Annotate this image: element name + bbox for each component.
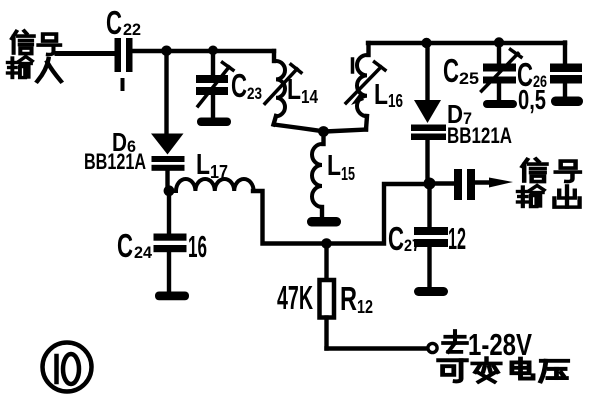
信号输入 input label	[8, 31, 61, 81]
bottom wire L14 to L16	[274, 125, 366, 132]
wire D7 to node F	[425, 140, 429, 184]
inductor L14	[272, 51, 276, 61]
open terminal circle	[428, 343, 437, 352]
capacitor C27	[427, 184, 431, 227]
svg-text:C: C	[117, 227, 133, 264]
varactor diode D7	[414, 100, 441, 123]
resistor R12	[324, 244, 328, 280]
svg-text:22: 22	[123, 20, 141, 39]
svg-text:L: L	[374, 79, 388, 111]
svg-text:0,5: 0,5	[518, 84, 546, 115]
ground bar under C23	[197, 118, 231, 127]
svg-text:23: 23	[247, 84, 262, 103]
ground bar under C25	[483, 100, 517, 108]
ground bar under C26	[551, 97, 583, 107]
ground bar under C24	[155, 292, 189, 301]
ground bar under L15	[307, 217, 341, 227]
top right rail	[368, 41, 565, 45]
svg-text:C: C	[231, 67, 247, 104]
svg-text:25: 25	[459, 69, 479, 88]
node D junction dot on bottom rail	[321, 238, 332, 249]
svg-text:L: L	[287, 74, 301, 106]
node B junction dot	[164, 185, 175, 196]
capacitor C22	[115, 38, 122, 72]
trimmer capacitor C23	[196, 75, 228, 83]
svg-text:24: 24	[134, 243, 153, 262]
wire C24 to ground	[167, 252, 171, 292]
node C junction dot	[318, 126, 329, 137]
svg-text:16: 16	[388, 91, 403, 111]
去1-28V supply label	[443, 327, 532, 362]
node F junction dot	[424, 178, 436, 190]
svg-text:BB121A: BB121A	[447, 123, 512, 148]
capacitor C26	[563, 43, 567, 65]
wire node to C23	[211, 51, 215, 75]
output arrow wire	[475, 180, 495, 184]
可变电压 supply label line 2	[439, 358, 568, 382]
inductor L17	[176, 179, 254, 191]
信号输出 output label	[518, 159, 580, 207]
wire C22 to L14 corner	[133, 49, 275, 53]
wire D6 to node B	[165, 171, 169, 191]
svg-text:47K: 47K	[277, 279, 313, 316]
svg-text:L: L	[196, 149, 210, 181]
svg-text:17: 17	[210, 162, 228, 182]
wire C26 to ground	[563, 84, 567, 98]
value 1 of C22	[121, 78, 125, 91]
ground bar under C27	[414, 287, 448, 296]
svg-text:14: 14	[301, 87, 318, 107]
svg-text:L: L	[327, 150, 341, 182]
svg-text:16: 16	[188, 229, 207, 264]
node E junction dot above D7	[421, 38, 431, 48]
svg-text:C: C	[443, 52, 459, 89]
wire C25 to ground	[497, 83, 501, 100]
wire C27 to ground	[427, 247, 431, 287]
svg-text:12: 12	[357, 297, 373, 317]
svg-text:C: C	[388, 220, 404, 257]
svg-text:27: 27	[404, 236, 420, 255]
node junction dot above C23	[208, 46, 218, 56]
wire L17 corner down to bottom rail	[253, 184, 430, 244]
wire node A down to D6	[164, 51, 168, 134]
figure number 10 circle	[43, 343, 92, 392]
svg-text:R: R	[340, 280, 357, 317]
trimmer capacitor C25	[497, 43, 501, 64]
inductor L16	[366, 43, 370, 55]
svg-text:BB121A: BB121A	[84, 149, 146, 174]
inductor L15	[321, 132, 325, 144]
wire C23 to ground	[211, 95, 215, 118]
wire input to C22	[57, 51, 114, 56]
varactor diode D6	[151, 134, 184, 155]
wire R12 to supply terminal	[327, 346, 428, 350]
node G junction dot above C25	[494, 37, 504, 47]
svg-text:C: C	[106, 4, 122, 41]
node A junction dot	[161, 46, 172, 57]
svg-text:12: 12	[448, 221, 466, 256]
capacitor C24	[167, 195, 171, 234]
svg-text:15: 15	[341, 164, 355, 184]
wire node E down to D7	[425, 43, 429, 101]
coupling capacitor at output	[435, 181, 454, 185]
